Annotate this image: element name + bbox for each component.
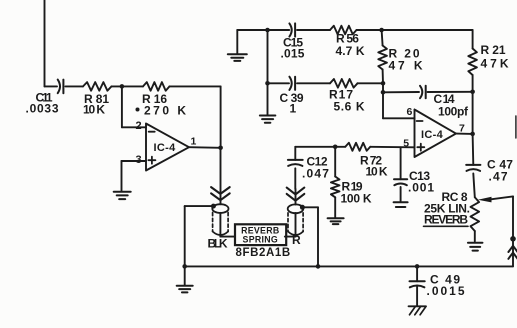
svg-text:7: 7 (459, 122, 465, 134)
label R56 4.7K (336, 32, 365, 59)
ground RC8 (468, 243, 483, 251)
pin 1 label (191, 136, 197, 148)
wire pin2 (122, 86, 146, 127)
node output U2 (470, 132, 475, 137)
node bus left (182, 264, 187, 269)
wire node to pin6 (383, 83, 415, 118)
label R terminal (292, 233, 301, 247)
svg-text:IC-4: IC-4 (154, 142, 177, 154)
svg-text:.047: .047 (302, 167, 330, 181)
node bus C49 (415, 264, 420, 269)
svg-text:REVERB: REVERB (424, 212, 468, 226)
wiper arrow RC8 (478, 196, 513, 202)
resistor R21 (468, 30, 477, 92)
label R20 47K (389, 47, 426, 73)
op-amp U1 plus (148, 157, 155, 164)
label R19 100K (341, 180, 372, 206)
resistor R17 (330, 79, 358, 88)
wire pickup center to spring box (285, 213, 296, 237)
svg-text:.015: .015 (281, 47, 305, 61)
op-amp U2 IC-4 (415, 110, 457, 158)
wire input from top (45, 0, 58, 86)
wire C47 to RC8 (473, 173, 475, 197)
label R16 270K (136, 92, 189, 118)
chassis ground C49 (409, 306, 427, 315)
svg-text:6: 6 (407, 106, 413, 118)
svg-text:1: 1 (191, 136, 197, 148)
label C47 .47 (487, 158, 513, 184)
svg-text:SPRING: SPRING (243, 234, 279, 244)
node R20 top (379, 28, 384, 33)
wire top row left (237, 29, 289, 31)
potentiometer RC8 (471, 197, 480, 241)
node R19 top (333, 145, 338, 150)
wire R17 to node (358, 82, 384, 84)
svg-text:.0033: .0033 (26, 102, 60, 116)
svg-text:47K: 47K (481, 57, 512, 71)
wire C15 to R56 (297, 29, 330, 31)
capacitor C12 (288, 147, 303, 166)
svg-text:100pf: 100pf (438, 105, 469, 119)
wire pin5 row (295, 146, 414, 149)
wire driver center to spring box (220, 213, 235, 237)
node C15 branch (265, 28, 270, 33)
wire R81 to R16 (112, 85, 144, 87)
wire pin3 (122, 161, 147, 191)
ground bus left (177, 266, 193, 292)
node driver shield (211, 204, 216, 209)
node C14 branch (381, 90, 386, 95)
svg-text:BLK: BLK (208, 237, 228, 251)
resistor R72 (345, 143, 370, 151)
ground bus (185, 265, 513, 267)
wire R21 to output node (472, 92, 474, 134)
wire C12 down (294, 168, 296, 189)
svg-text:.47: .47 (489, 170, 509, 184)
label R21 47K (481, 43, 512, 71)
label R81 10K (83, 92, 109, 117)
svg-text:2: 2 (136, 120, 142, 132)
pickup shield cylinder (288, 204, 304, 235)
wire to C39 (268, 82, 290, 84)
arrow pickup (287, 188, 305, 201)
svg-text:1: 1 (290, 102, 297, 116)
pin 2 label (136, 120, 142, 132)
wire C49 to chassis (416, 286, 418, 306)
label RC8 25K LIN REVERB (424, 190, 470, 226)
node R20 bottom (381, 81, 386, 86)
capacitor C11 (58, 80, 83, 94)
resistor R16 (143, 82, 170, 91)
wire C12 down to pickup (295, 189, 297, 205)
wire C14 right (428, 91, 473, 93)
svg-text:5.6 K: 5.6 K (334, 100, 366, 114)
label BLK (208, 237, 228, 251)
wire wiper down right edge (512, 196, 514, 266)
capacitor C39 (289, 77, 295, 90)
label R72 10K (360, 154, 388, 179)
svg-text:47 K: 47 K (389, 59, 426, 73)
ground R19 (328, 218, 344, 224)
wire driver shield to ground bus (185, 206, 214, 266)
pin 5 label (403, 138, 409, 150)
svg-text:10 K: 10 K (83, 103, 105, 117)
node right edge (510, 236, 516, 242)
arrow up right edge (508, 246, 517, 259)
label R17 5.6K (329, 88, 365, 114)
capacitor C15 (289, 23, 295, 36)
ground pin3 (114, 192, 131, 199)
svg-text:3: 3 (136, 154, 142, 166)
label C11 .0033 (26, 91, 60, 116)
svg-text:8FB2A1B: 8FB2A1B (236, 247, 291, 259)
svg-text:10 K: 10 K (366, 165, 388, 179)
svg-text:270 K: 270 K (144, 103, 188, 117)
wire stub right edge (515, 116, 517, 138)
label C14 100pf (434, 92, 469, 119)
node C14-R21 (470, 90, 475, 95)
svg-text:.001: .001 (408, 181, 435, 195)
label C15 .015 (281, 36, 305, 61)
svg-text:4.7 K: 4.7 K (336, 44, 365, 58)
svg-text:IC-4: IC-4 (421, 129, 444, 141)
op-amp U2 minus (417, 120, 423, 122)
label C13 .001 (408, 169, 435, 195)
wire U1 output (189, 146, 221, 149)
node pickup shield (300, 205, 305, 210)
svg-text:R: R (292, 233, 301, 247)
label 8FB2A1B (236, 247, 291, 259)
label C49 .0015 (427, 273, 467, 299)
ground C13 (394, 187, 408, 207)
arrow driver (211, 187, 230, 200)
driver shield cylinder (212, 204, 228, 235)
wire C14 left (383, 91, 419, 93)
wire pickup shield to bus (302, 207, 318, 266)
resistor R20 (378, 30, 387, 83)
op-amp U1 IC-4 (146, 124, 189, 171)
pin 6 label (407, 106, 413, 118)
ground top row (228, 30, 247, 61)
svg-text:100 K: 100 K (341, 192, 372, 206)
resistor R81 (83, 82, 112, 91)
resistor R19 (331, 147, 340, 218)
svg-text:R 21: R 21 (481, 43, 506, 57)
label C12 .047 (302, 155, 330, 181)
resistor R56 (330, 26, 357, 35)
wire U2 output pin7 (456, 133, 473, 135)
wire R56 to R21 (357, 29, 473, 31)
node J1 (120, 84, 125, 89)
label C39 1 (280, 91, 304, 116)
wire row1 to row2 (267, 30, 269, 83)
op-amp U2 plus (417, 144, 424, 151)
ground C39 (260, 83, 276, 122)
wire C39 to R17 (297, 82, 330, 84)
pin 7 label (459, 122, 465, 134)
node bus pickup (316, 264, 321, 269)
pin 3 label (136, 154, 142, 166)
wire U1 out down to driver (220, 148, 222, 205)
op-amp U1 minus (149, 131, 155, 133)
svg-text:.0015: .0015 (427, 284, 467, 298)
reverb spring box (235, 224, 286, 245)
capacitor C49 (410, 266, 425, 287)
node output U1 (218, 146, 223, 151)
capacitor C13 (394, 147, 407, 185)
capacitor C14 (420, 86, 426, 98)
capacitor C47 (466, 134, 480, 171)
wire feedback R16 to output (170, 86, 221, 147)
node C39 branch (265, 81, 270, 86)
